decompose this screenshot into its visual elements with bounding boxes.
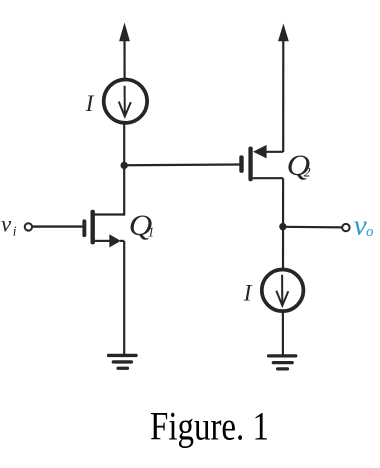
- input terminal vi: [25, 223, 32, 230]
- node B (output node): [279, 223, 286, 230]
- transistor Q2: [239, 145, 283, 181]
- wire: vi terminal to Q1 gate: [32, 225, 82, 227]
- ground (right): [267, 354, 298, 370]
- svg-text:I: I: [85, 91, 95, 116]
- svg-text:v: v: [354, 210, 367, 242]
- svg-text:o: o: [366, 224, 374, 240]
- node A (Q1 drain / Q2 gate): [121, 162, 128, 169]
- svg-text:v: v: [1, 212, 12, 237]
- VDD arrow left: [119, 23, 130, 80]
- wire: current source to Q1 drain: [123, 123, 125, 216]
- svg-text:1: 1: [148, 224, 155, 239]
- VDD arrow right: [278, 24, 289, 153]
- wire: Q1 source to ground: [123, 241, 125, 355]
- wire: node A to Q2 gate: [124, 163, 239, 166]
- label vi: [1, 212, 17, 239]
- svg-text:I: I: [243, 281, 253, 306]
- wire: current source I2 to ground: [282, 312, 284, 356]
- svg-text:i: i: [13, 224, 17, 239]
- wire: node B to vo terminal: [283, 226, 342, 229]
- wire: Q2 drain to current source I2: [282, 178, 284, 268]
- transistor Q1: [82, 210, 124, 248]
- svg-text:Figure. 1: Figure. 1: [150, 403, 269, 448]
- label vo: [354, 210, 374, 242]
- current source I2 (right): [262, 270, 304, 312]
- current source I1 (left): [104, 80, 147, 123]
- ground (left): [107, 354, 138, 370]
- output terminal vo: [342, 224, 349, 231]
- label Q2: [287, 150, 311, 182]
- svg-text:2: 2: [304, 165, 311, 180]
- label Q1: [129, 210, 155, 242]
